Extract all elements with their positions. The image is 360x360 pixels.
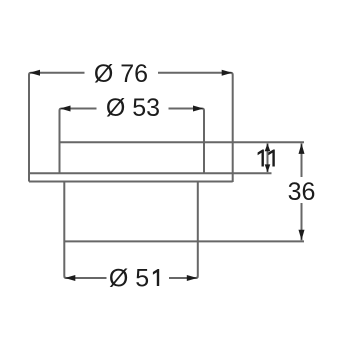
svg-text:36: 36 [288,178,316,206]
svg-text:Ø 53: Ø 53 [106,94,160,122]
svg-text:Ø 5: Ø 5 [109,265,149,293]
svg-text:Ø 76: Ø 76 [94,60,148,88]
